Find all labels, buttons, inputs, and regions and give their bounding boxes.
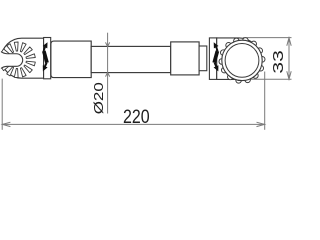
extension lines for 33 dimension bbox=[243, 38, 292, 80]
lightning bolt left bbox=[42, 42, 49, 71]
lightning bolt right bbox=[212, 42, 219, 71]
dimension Ø20 line bbox=[106, 33, 110, 114]
right collar bbox=[171, 42, 199, 75]
tube bbox=[91, 46, 171, 72]
right stub bbox=[199, 46, 207, 71]
svg-text:220: 220 bbox=[123, 105, 150, 127]
left clamp edge strip bbox=[44, 38, 51, 79]
dimension 220 line bbox=[2, 72, 265, 130]
inner circle of serrated ring bbox=[225, 44, 259, 78]
outer circle of serrated ring bbox=[222, 40, 262, 80]
slot (fork opening) of left disc bbox=[0, 51, 23, 69]
left contact disc body bbox=[2, 38, 44, 78]
serration teeth of left disc bbox=[2, 42, 36, 78]
right clamp edge strip bbox=[209, 38, 216, 80]
sleeve collar bbox=[51, 41, 91, 78]
right element body bbox=[217, 38, 260, 80]
svg-text:Ø20: Ø20 bbox=[92, 82, 107, 114]
dimension 33 line bbox=[287, 38, 291, 80]
scallop tabs on right serrated ring bbox=[219, 38, 265, 83]
svg-text:33: 33 bbox=[269, 50, 286, 73]
